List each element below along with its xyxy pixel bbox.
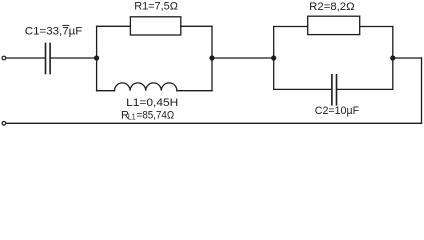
svg-text:L1=0,45H: L1=0,45H [126,97,178,109]
resistor R2 [308,16,360,34]
wire [51,57,97,59]
node A [94,55,99,60]
wire [177,90,212,92]
capacitor C2 [332,75,337,105]
wire [274,88,332,90]
svg-text:C2=10µF: C2=10µF [315,105,359,117]
wire [360,26,393,28]
wire left riser section 1 [96,26,98,90]
wire [6,57,45,59]
wire [274,26,308,28]
node C [271,55,276,60]
wire left riser section 2 [273,27,275,90]
wire right edge [421,58,423,123]
wire [181,25,212,27]
capacitor C1 [46,44,51,74]
wire right riser section 2 [392,27,394,90]
wire output stub [393,57,422,59]
svg-text:=85,74Ω: =85,74Ω [137,109,175,121]
inductor L1 [115,83,177,91]
label RL1 value [121,109,174,121]
svg-text:R2=8,2Ω: R2=8,2Ω [309,1,354,13]
wire right riser section 1 [211,26,213,90]
wire bottom return [6,122,422,124]
node B [209,55,214,60]
terminal input bottom [2,122,6,126]
resistor R1 [130,17,180,35]
node D [390,55,395,60]
label C1 value [25,25,83,37]
svg-text:R1=7,5Ω: R1=7,5Ω [134,1,178,13]
wire [97,25,131,27]
wire [97,90,115,92]
wire [337,88,393,90]
svg-text:C1=33,7µF: C1=33,7µF [25,26,83,38]
terminal input top [2,56,6,60]
wire [212,57,274,59]
svg-text:L1: L1 [128,112,136,121]
